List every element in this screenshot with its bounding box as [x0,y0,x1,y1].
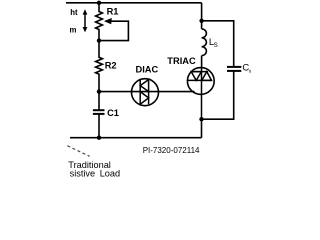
wire right rail below capacitor [202,71,234,119]
potentiometer wiper arrow [100,18,128,41]
label ht [70,8,78,17]
node junction top of Ls [199,19,203,23]
dashed leader line [67,146,89,157]
svg-text:S: S [214,42,218,49]
adjustment arrow (double headed) [83,9,88,32]
svg-text:ht: ht [70,8,78,17]
svg-text:sistive: sistive [70,168,96,178]
diac D1 symbol [140,80,148,105]
node junction bottom left [97,136,101,140]
resistor R1 (potentiometer) [96,3,103,41]
wire right top elbow [201,3,203,21]
node junction diac branch [97,89,101,93]
svg-text:C1: C1 [107,108,119,118]
capacitor C (right) [227,67,241,71]
label R2 [105,60,117,70]
label R1 [107,6,119,16]
label m [70,25,77,34]
svg-text:DIAC: DIAC [136,65,159,75]
resistor R2 [96,41,103,92]
triac U1 circle [187,68,214,95]
label C subscript [242,63,250,74]
svg-text:C: C [242,63,249,74]
svg-text:m: m [70,25,77,34]
svg-text:R1: R1 [107,6,119,16]
svg-text:R2: R2 [105,60,117,70]
label DIAC [136,65,159,75]
wire bottom rail [70,137,202,139]
capacitor C1 [93,92,105,138]
label Traditional [68,160,111,170]
svg-text:TRIAC: TRIAC [167,56,196,66]
wire top rail [66,2,202,4]
wire triac cathode to bottom rail [201,119,203,138]
wire diac branch [99,91,195,93]
wire to right capacitor branch [202,21,234,67]
label PI-7320-072114 [143,146,200,155]
node junction triac bottom [199,117,203,121]
node junction R1 bottom [97,38,101,42]
diac D1 circle [132,79,159,106]
label TRIAC [167,56,196,66]
node junction top left [97,1,101,5]
triac U1 symbol [187,68,212,119]
label Ls [209,37,218,49]
svg-text:Load: Load [100,168,120,178]
label C1 [107,108,119,118]
inductor Ls [202,21,207,68]
label sistive Load [70,168,121,178]
svg-text:PI-7320-072114: PI-7320-072114 [143,146,200,155]
